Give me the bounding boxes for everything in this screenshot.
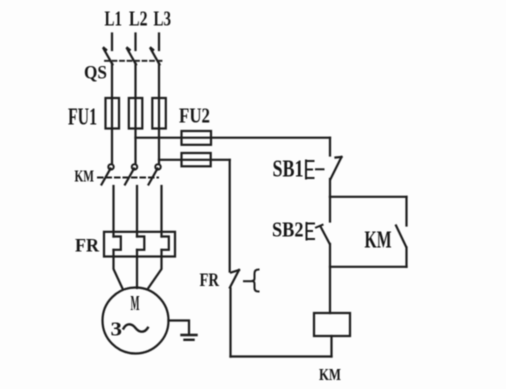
wire phase2 QS to KM [134, 64, 136, 164]
thermal contact FR actuator [244, 270, 259, 292]
pushbutton SB2 label [272, 218, 304, 242]
wire FR to motor lead 2 [136, 250, 138, 288]
fuse FU1 element 1 [106, 98, 120, 129]
wire junction to SB2 [329, 197, 331, 222]
pushbutton SB1 (NC stop) [331, 157, 342, 179]
pushbutton SB2 actuator E [307, 223, 323, 240]
wire L2 tap to control (through FU2 upper) [136, 137, 331, 139]
svg-text:FU2: FU2 [179, 104, 210, 128]
svg-text:QS: QS [84, 63, 107, 84]
contactor KM pole 3 [149, 164, 162, 236]
svg-text:SB2: SB2 [272, 218, 304, 242]
contactor KM aux label [365, 228, 392, 254]
fuse FU1 element 3 [152, 98, 166, 129]
svg-text:FU1: FU1 [68, 105, 97, 131]
svg-text:3: 3 [111, 319, 123, 341]
wire motor to ground [169, 321, 190, 335]
wire FR to motor lead 1 [114, 250, 123, 289]
pushbutton SB2 (NO start) [321, 227, 330, 244]
wire phase3 QS to KM [158, 64, 160, 164]
wire control top rail drop [329, 138, 331, 156]
node L3 label [154, 7, 172, 31]
wire SB1 to junction [329, 179, 331, 197]
coil KM [314, 313, 350, 336]
thermal contact FR (NC) [230, 270, 239, 288]
ground symbol [182, 335, 197, 340]
fuse FU2 element 1 [182, 131, 212, 145]
pushbutton SB1 label [273, 157, 304, 183]
switch QS pole 3 blade [151, 48, 160, 65]
svg-text:M: M [131, 291, 140, 315]
fuse FU1 label [68, 105, 97, 131]
wire phase1 QS to KM [111, 64, 113, 164]
node L1 label [105, 7, 123, 31]
svg-text:KM: KM [75, 167, 95, 186]
svg-text:L1: L1 [105, 7, 123, 31]
thermal relay FR heater 1 [114, 237, 121, 250]
wire L1 top stub [111, 34, 113, 51]
switch QS pole 1 blade [104, 48, 113, 65]
thermal relay FR heater 2 [137, 237, 144, 250]
contactor KM linkage dashed [98, 177, 158, 179]
wire bottom rail [231, 355, 332, 357]
wire junction to KM aux branch [330, 196, 407, 198]
switch QS linkage dashed [105, 60, 162, 62]
contactor KM aux contact [396, 197, 407, 267]
switch QS label [84, 63, 107, 84]
wire coil bottom [330, 336, 332, 357]
motor tilde [124, 324, 148, 331]
fuse FU2 label [179, 104, 210, 128]
svg-text:KM: KM [365, 228, 392, 254]
pushbutton SB1 actuator E [306, 161, 324, 179]
contactor KM label [75, 167, 95, 186]
wire L3 top stub [158, 34, 160, 51]
wire L3 tap to control (through FU2 lower) [159, 159, 230, 161]
svg-text:L2: L2 [129, 7, 148, 31]
svg-text:FR: FR [200, 270, 220, 291]
wire KM aux branch bottom [330, 266, 407, 268]
motor 3 phase label [111, 319, 123, 341]
thermal relay FR heater 3 [162, 237, 169, 250]
coil KM label [319, 365, 341, 384]
thermal relay FR box [104, 232, 175, 257]
thermal relay FR label [75, 236, 99, 257]
contactor KM pole 1 [102, 164, 114, 236]
svg-text:FR: FR [75, 236, 99, 257]
fuse FU2 element 2 [182, 153, 211, 166]
fuse FU1 element 2 [129, 98, 143, 129]
motor M circle [103, 288, 169, 354]
svg-text:SB1: SB1 [273, 157, 304, 183]
wire FR to motor lead 3 [148, 250, 162, 289]
thermal contact FR label [200, 270, 220, 291]
svg-text:L3: L3 [154, 7, 172, 31]
wire FU2 lower drop to FR contact [229, 160, 231, 272]
svg-text:KM: KM [319, 365, 341, 384]
switch QS pole 2 blade [127, 48, 136, 65]
wire SB2 to coil [329, 244, 331, 313]
contactor KM pole 2 [125, 164, 137, 236]
node L2 label [129, 7, 148, 31]
motor M letter [131, 291, 140, 315]
wire FR contact to bottom rail [229, 289, 231, 357]
wire L2 top stub [134, 34, 136, 51]
